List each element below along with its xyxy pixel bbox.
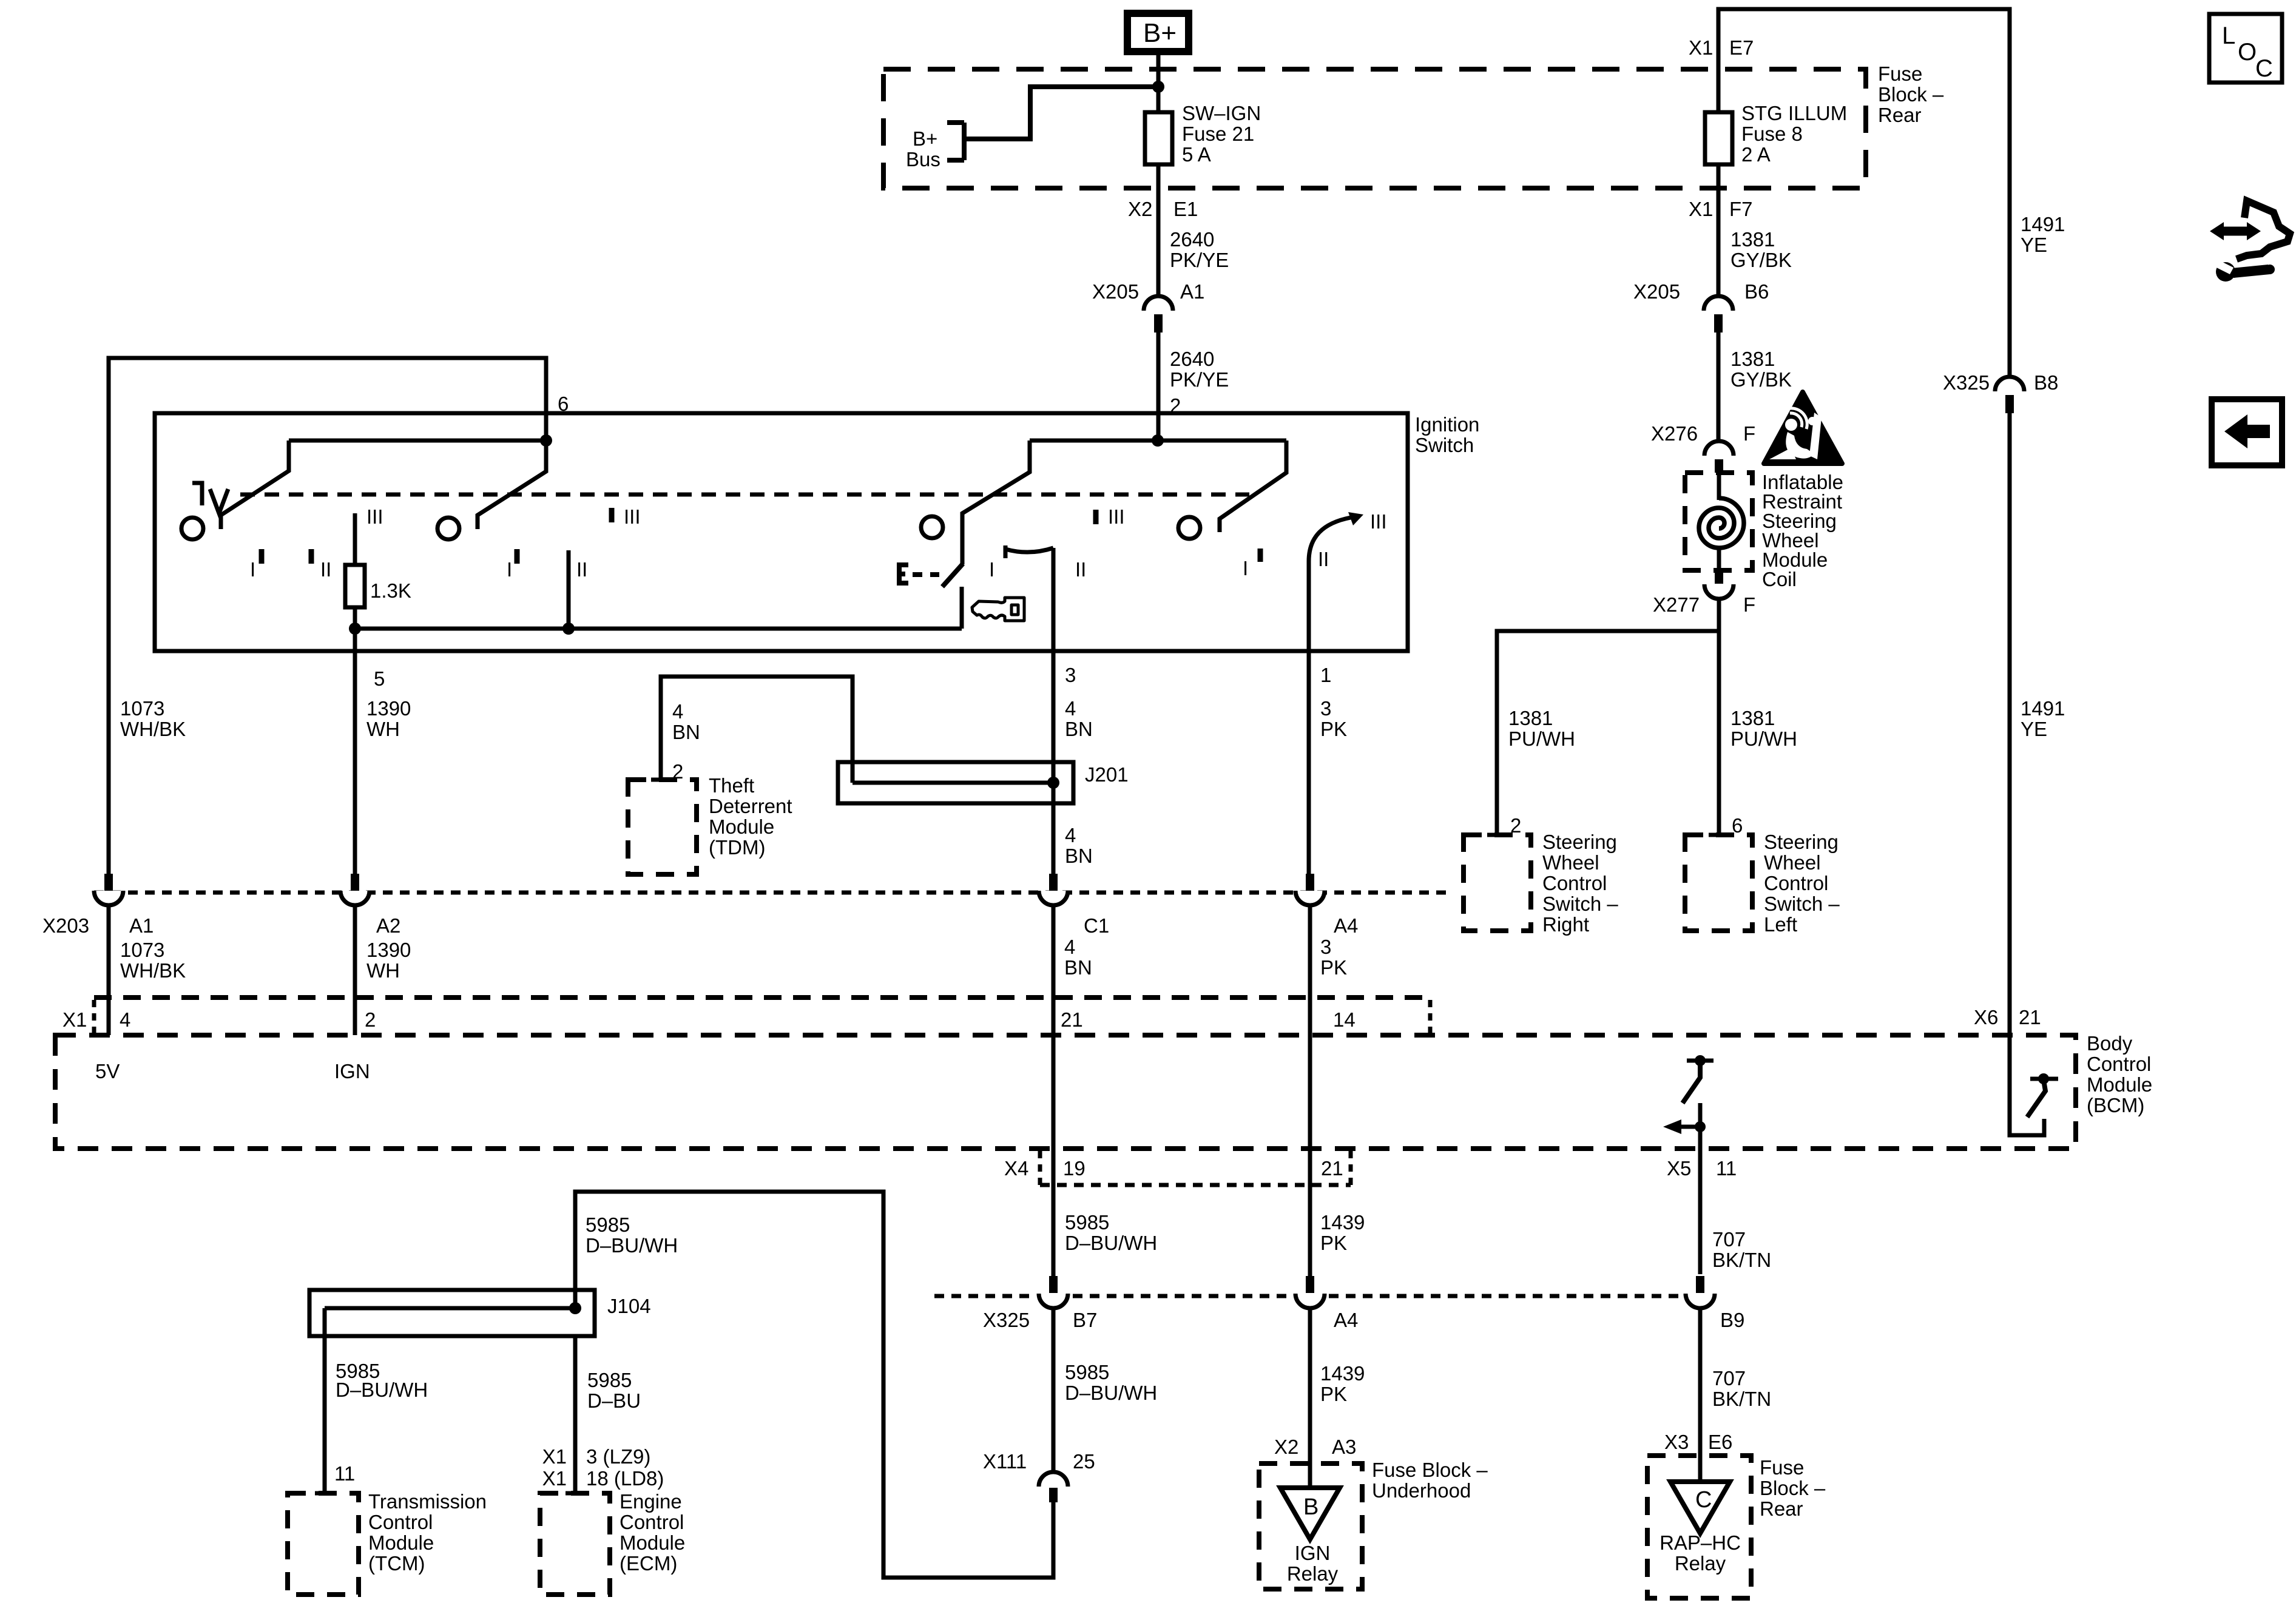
svg-text:F7: F7 [1729,198,1753,220]
connector row X4 [1038,1151,1042,1185]
svg-text:WH/BK: WH/BK [120,718,186,740]
svg-text:WH: WH [366,959,400,982]
svg-text:Relay: Relay [1287,1562,1339,1585]
wire internal bus A [289,439,546,443]
svg-text:Control: Control [620,1511,684,1533]
transmission control module box [288,1493,359,1595]
spring return arc with arrow [1309,518,1351,561]
svg-text:Transmission: Transmission [368,1490,487,1513]
svg-text:A1: A1 [1180,280,1204,303]
svg-text:18 (LD8): 18 (LD8) [586,1467,664,1490]
svg-text:C: C [1695,1487,1712,1513]
svg-text:PK: PK [1320,1383,1347,1405]
fuse block rear box (bottom) [1647,1456,1751,1598]
svg-text:25: 25 [1073,1450,1095,1473]
wire X277 down and branch to steering switches [1717,599,1721,835]
accessory position symbol [192,483,228,513]
svg-text:III: III [1370,510,1387,533]
svg-text:Control: Control [1542,872,1607,894]
svg-text:4: 4 [672,700,683,723]
node junction pin6 [540,434,552,447]
svg-text:2640: 2640 [1170,348,1214,370]
connector row X325 dotted [934,1294,1681,1298]
wire out of coil [1717,548,1721,569]
svg-text:J201: J201 [1085,763,1129,786]
svg-text:B9: B9 [1720,1309,1744,1331]
wire X111 loop to J104 [575,1192,1053,1578]
svg-text:PK/YE: PK/YE [1170,249,1229,271]
svg-text:Control: Control [1764,872,1828,894]
svg-text:BN: BN [1064,956,1092,979]
node junction pole B II [562,623,575,635]
svg-text:I: I [1243,557,1248,579]
wire pin 2 internal bus C [1030,439,1286,443]
svg-text:BK/TN: BK/TN [1712,1249,1771,1271]
svg-text:D–BU/WH: D–BU/WH [1065,1382,1157,1404]
svg-text:3: 3 [1320,936,1331,958]
svg-text:X1: X1 [1689,198,1713,220]
svg-text:Rear: Rear [1760,1497,1803,1520]
svg-text:X2: X2 [1128,198,1152,220]
svg-text:3 (LZ9): 3 (LZ9) [586,1445,650,1468]
svg-text:GY/BK: GY/BK [1730,249,1792,271]
wire C1 through BCM [1052,905,1056,1276]
svg-text:PU/WH: PU/WH [1730,727,1797,750]
relay terminal triangle B [1280,1488,1340,1539]
svg-text:4: 4 [1065,697,1076,720]
svg-text:PU/WH: PU/WH [1508,727,1575,750]
svg-text:1439: 1439 [1320,1211,1365,1234]
svg-text:X1: X1 [542,1445,567,1468]
svg-text:WH/BK: WH/BK [120,959,186,982]
svg-text:PK: PK [1320,1232,1347,1254]
wire J104 to TCM [323,1308,327,1493]
svg-text:Fuse: Fuse [1760,1456,1804,1479]
svg-text:Rear: Rear [1878,104,1922,126]
svg-text:Underhood: Underhood [1372,1479,1471,1502]
svg-text:Wheel: Wheel [1542,851,1599,874]
svg-text:PK: PK [1320,956,1347,979]
svg-text:Switch: Switch [1415,434,1474,456]
svg-text:C1: C1 [1084,914,1109,937]
svg-text:1491: 1491 [2021,213,2065,235]
svg-text:X325: X325 [983,1309,1030,1331]
svg-text:5985: 5985 [1065,1361,1109,1383]
svg-text:11: 11 [1716,1157,1737,1180]
svg-text:5 A: 5 A [1182,143,1211,166]
svg-text:II: II [320,558,331,581]
connector X111 25 [1039,1472,1068,1502]
fuse block underhood box [1259,1463,1362,1589]
BCM internal switch right [2010,1035,2058,1135]
svg-text:III: III [624,505,641,528]
svg-text:Steering: Steering [1542,831,1617,853]
svg-text:5: 5 [374,667,385,690]
BCM internal switch left [1663,1055,1714,1274]
svg-text:L: L [2222,22,2235,49]
contact circle key switch [921,516,943,538]
svg-text:F: F [1743,422,1755,445]
connector X203 A1 [94,874,123,905]
switch arm pole C left to key switch [962,441,1030,564]
svg-text:1439: 1439 [1320,1362,1365,1385]
svg-text:14: 14 [1333,1008,1356,1031]
svg-text:2 A: 2 A [1741,143,1771,166]
svg-text:5985: 5985 [587,1369,632,1391]
svg-text:Right: Right [1542,913,1589,936]
svg-text:X2: X2 [1274,1436,1298,1458]
svg-text:Switch –: Switch – [1764,893,1840,915]
svg-text:6: 6 [558,393,569,415]
wire top loop from fuse E7 to 1491 YE [1718,9,2010,377]
steering wheel control switch - right box [1464,835,1531,931]
svg-text:A2: A2 [376,914,400,937]
svg-text:(ECM): (ECM) [620,1552,677,1575]
svg-text:(BCM): (BCM) [2087,1094,2144,1116]
svg-text:BN: BN [1065,718,1093,740]
position marks pole D [1258,549,1263,562]
svg-text:3: 3 [1320,697,1331,720]
svg-text:Ignition: Ignition [1415,413,1479,436]
wire A4 through BCM [1308,905,1312,1276]
key switch arm E [942,564,963,587]
svg-text:Coil: Coil [1762,568,1797,590]
svg-text:(TCM): (TCM) [368,1552,425,1575]
svg-text:Control: Control [2087,1053,2151,1075]
wire pole B position II [567,550,571,629]
svg-text:X3: X3 [1664,1431,1689,1453]
svg-text:A4: A4 [1334,1309,1358,1331]
svg-text:2: 2 [365,1008,376,1031]
svg-text:5985: 5985 [1065,1211,1109,1234]
svg-text:Bus: Bus [906,148,940,170]
svg-text:A1: A1 [129,914,154,937]
svg-text:Module: Module [2087,1073,2152,1096]
svg-text:X325: X325 [1943,371,1990,394]
svg-text:2640: 2640 [1170,228,1214,251]
svg-text:Theft: Theft [709,774,754,797]
contact circle pole A [181,518,203,539]
node junction dot at B+ bus tap [1152,81,1164,93]
svg-text:Relay: Relay [1675,1552,1726,1575]
svg-text:B6: B6 [1744,280,1769,303]
svg-text:1491: 1491 [2021,697,2065,720]
relay terminal triangle C [1670,1482,1730,1533]
svg-text:3: 3 [1065,664,1076,686]
svg-text:Deterrent: Deterrent [709,795,792,817]
svg-text:4: 4 [1065,824,1076,846]
svg-text:A3: A3 [1332,1436,1356,1458]
coil spiral clockspring [1699,498,1744,548]
svg-text:D–BU/WH: D–BU/WH [336,1379,428,1401]
svg-text:707: 707 [1712,1228,1746,1251]
svg-text:21: 21 [2019,1006,2041,1028]
svg-text:1381: 1381 [1730,228,1775,251]
node B+ Bus terminal bracket [947,123,964,160]
svg-text:Left: Left [1764,913,1797,936]
svg-text:4: 4 [120,1008,130,1031]
svg-text:J104: J104 [607,1295,651,1317]
wire pin 6 top loop to BCM 5V [109,358,546,874]
svg-text:Block –: Block – [1878,83,1944,106]
svg-text:GY/BK: GY/BK [1730,368,1792,391]
svg-text:X277: X277 [1653,593,1700,616]
svg-text:II: II [576,558,587,581]
splice J104 box [309,1290,595,1336]
wire internal bottom bus [355,627,962,631]
connector X325 B8 [1995,377,2024,413]
svg-text:X6: X6 [1974,1006,1998,1028]
svg-text:1073: 1073 [120,939,164,961]
svg-text:Wheel: Wheel [1764,851,1821,874]
connector X325 B9 [1686,1276,1715,1308]
node junction resistor bottom [349,623,361,635]
svg-text:21: 21 [1061,1008,1083,1031]
svg-text:21: 21 [1321,1157,1343,1180]
wire pin 1 down [1307,561,1311,874]
node junction pin2 [1152,434,1164,447]
svg-text:Switch –: Switch – [1542,893,1618,915]
svg-text:WH: WH [366,718,400,740]
theft deterrent module box [628,780,697,874]
svg-text:X1: X1 [542,1467,567,1490]
svg-text:1381: 1381 [1508,707,1553,729]
wire 1381 GY/BK [1717,333,1721,441]
key switch lower pole [960,587,964,629]
wire A1 to BCM [107,905,111,1035]
wire A2 to BCM [353,905,357,1035]
fuse STG ILLUM Fuse 8 [1705,112,1732,164]
resistor 1.3K pole [353,513,357,565]
svg-text:Body: Body [2087,1032,2133,1055]
svg-text:PK/YE: PK/YE [1170,368,1229,391]
svg-text:Fuse: Fuse [1878,62,1922,85]
wire TDM to J201 [661,677,853,783]
connector X203 C1 [1039,874,1068,905]
svg-text:1.3K: 1.3K [370,579,411,602]
wire B+ down to fuse block [1156,52,1161,296]
svg-text:1390: 1390 [366,697,411,720]
svg-text:O: O [2238,39,2257,66]
connector X203 A2 [340,874,370,905]
connector row X1 dotted [94,995,1430,1000]
svg-text:1073: 1073 [120,697,164,720]
svg-text:BN: BN [672,721,700,743]
svg-text:X111: X111 [983,1450,1027,1473]
svg-text:Fuse 8: Fuse 8 [1741,123,1803,145]
run contact arc pole C [1005,548,1053,552]
connector row X203 dotted line [94,891,1453,895]
svg-text:X276: X276 [1651,422,1698,445]
connector X205 B6 [1704,296,1733,333]
svg-text:19: 19 [1063,1157,1086,1180]
svg-text:1390: 1390 [366,939,411,961]
wire pin 3 down [1052,548,1056,874]
svg-text:707: 707 [1712,1367,1746,1389]
body control module dashed box [55,1035,2076,1149]
svg-text:I: I [250,558,255,581]
connector X325 B7 [1039,1276,1068,1308]
mechanical linkage dashed line [240,493,1249,497]
wire 2640 PK/YE to ignition switch [1156,333,1161,441]
wire 1439 PK to fuse block underhood [1308,1308,1312,1488]
svg-text:IGN: IGN [1295,1542,1331,1564]
svg-text:4: 4 [1064,936,1075,958]
svg-text:SW–IGN: SW–IGN [1182,102,1261,124]
svg-text:D–BU/WH: D–BU/WH [1065,1232,1157,1254]
contact circle pole B [437,518,459,539]
svg-text:X1: X1 [62,1008,87,1031]
connector X205 A1 [1144,296,1173,333]
switch arm pole D [1220,441,1286,532]
svg-text:Control: Control [368,1511,433,1533]
svg-text:D–BU: D–BU [587,1389,641,1412]
svg-text:X203: X203 [42,914,89,937]
svg-text:E1: E1 [1173,198,1198,220]
wire 1491 YE to BCM [2008,413,2012,1035]
svg-text:Engine: Engine [620,1490,682,1513]
svg-text:11: 11 [334,1462,355,1485]
ignition switch box [155,413,1408,651]
svg-text:F: F [1743,593,1755,616]
wire B+ Bus to junction [967,87,1156,139]
svg-text:D–BU/WH: D–BU/WH [586,1234,678,1257]
svg-text:III: III [366,505,383,528]
svg-text:Module: Module [368,1531,434,1554]
wire into coil [1717,473,1721,500]
contact circle pole D [1178,517,1200,539]
svg-text:YE: YE [2021,234,2047,256]
svg-text:Fuse 21: Fuse 21 [1182,123,1254,145]
svg-text:II: II [1318,548,1329,570]
svg-text:PK: PK [1320,718,1347,740]
svg-text:1381: 1381 [1730,707,1775,729]
svg-text:A4: A4 [1334,914,1358,937]
svg-text:X4: X4 [1004,1157,1028,1180]
icon LOC box [2209,14,2282,83]
svg-text:I: I [989,558,994,581]
fuse block rear dashed box (top) [883,69,1866,188]
svg-text:B7: B7 [1073,1309,1097,1331]
svg-text:RAP–HC: RAP–HC [1660,1531,1741,1554]
svg-text:1381: 1381 [1730,348,1775,370]
svg-text:BN: BN [1065,845,1093,867]
svg-text:B+: B+ [913,127,937,150]
svg-text:III: III [1108,505,1125,528]
svg-text:5V: 5V [95,1060,120,1082]
connector X325 A4 [1295,1276,1325,1308]
svg-text:X5: X5 [1667,1157,1691,1180]
svg-text:X205: X205 [1092,280,1139,303]
key icon [972,598,1024,621]
engine control module box [540,1493,610,1595]
warning triangle airbag icon [1764,392,1842,464]
svg-text:X1: X1 [1689,36,1713,59]
svg-text:Steering: Steering [1764,831,1838,853]
svg-text:E6: E6 [1708,1431,1732,1453]
fuse SW-IGN Fuse 21 [1145,112,1172,164]
svg-text:C: C [2255,55,2273,82]
wire resistor to pin 5 [353,607,357,874]
svg-text:B8: B8 [2034,371,2058,394]
wire B7 down to X111 [1052,1308,1056,1472]
svg-text:II: II [1075,558,1086,581]
svg-text:BK/TN: BK/TN [1712,1388,1771,1410]
svg-text:B: B [1303,1494,1319,1520]
svg-text:STG ILLUM: STG ILLUM [1741,102,1847,124]
svg-text:IGN: IGN [334,1060,370,1082]
icon back arrow box [2212,399,2282,465]
connector X277 F [1704,569,1734,599]
svg-text:YE: YE [2021,718,2047,740]
svg-text:5985: 5985 [586,1214,630,1236]
switch arm pole B [478,441,546,529]
position ticks pole B [515,549,520,564]
svg-text:B+: B+ [1143,18,1177,48]
position ticks pole A [259,549,265,564]
svg-text:(TDM): (TDM) [709,836,765,859]
svg-text:E7: E7 [1729,36,1754,59]
switch arm pole A [221,441,289,529]
connector X276 F [1704,441,1734,473]
wire B9 to fuse block rear [1698,1308,1703,1482]
svg-text:Module: Module [620,1531,685,1554]
connector X203 A4 [1295,874,1325,905]
svg-text:Fuse Block –: Fuse Block – [1372,1459,1488,1481]
svg-text:Block –: Block – [1760,1477,1826,1499]
splice J201 box [838,762,1073,803]
steering wheel control switch - left box [1685,835,1752,931]
icon diagnostic wrench [2210,201,2290,282]
wire J104 to ECM [573,1336,578,1493]
svg-text:X205: X205 [1633,280,1680,303]
svg-text:Module: Module [709,815,774,838]
coil dashed box [1685,473,1752,570]
svg-text:1: 1 [1320,664,1331,686]
node B+ battery box [1127,13,1189,52]
svg-text:I: I [507,558,512,581]
